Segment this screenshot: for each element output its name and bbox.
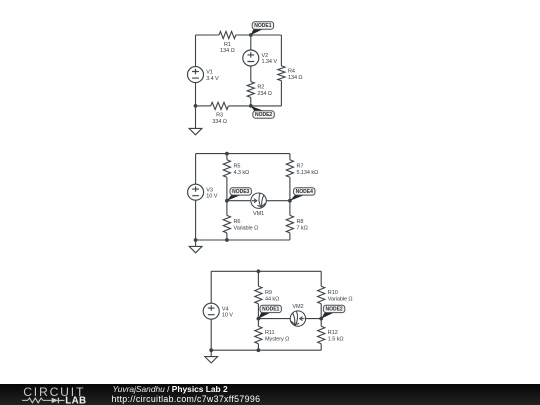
resistor R11 Mystery ohm bbox=[255, 326, 262, 343]
footer bar bbox=[0, 384, 540, 405]
svg-text:7 kΩ: 7 kΩ bbox=[297, 226, 308, 232]
ground (circuit 2) bbox=[189, 246, 202, 252]
svg-text:NODE1: NODE1 bbox=[254, 23, 271, 29]
svg-text:Variable Ω: Variable Ω bbox=[328, 297, 353, 303]
svg-text:R10: R10 bbox=[328, 290, 338, 296]
wire: circuit3 middle horizontal (voltmeter row) bbox=[258, 318, 321, 320]
svg-text:NODE3: NODE3 bbox=[232, 189, 249, 195]
junction dots circuit1 bbox=[194, 33, 253, 108]
resistor R2 234 ohm bbox=[247, 82, 254, 98]
wire: circuit2 top rail bbox=[196, 153, 290, 155]
svg-text:NODE1: NODE1 bbox=[262, 307, 279, 313]
svg-text:R2: R2 bbox=[257, 85, 264, 91]
svg-text:V3: V3 bbox=[206, 187, 213, 193]
resistor R5 4.3 kohm bbox=[223, 160, 230, 178]
wire: circuit1 ground lead bbox=[195, 106, 197, 128]
svg-text:4.3 kΩ: 4.3 kΩ bbox=[234, 170, 250, 176]
wire: circuit3 top rail bbox=[211, 270, 321, 272]
wire: circuit2 left branch bbox=[195, 154, 197, 240]
svg-text:NODE2: NODE2 bbox=[325, 307, 342, 313]
wire: circuit1 top rail bbox=[196, 34, 282, 36]
svg-text:R6: R6 bbox=[234, 219, 241, 225]
resistor R3 334 ohm bbox=[211, 102, 229, 109]
svg-text:10 V: 10 V bbox=[206, 193, 217, 199]
svg-text:234 Ω: 234 Ω bbox=[257, 91, 271, 97]
resistor R9 44 kohm bbox=[255, 286, 262, 304]
wire: circuit2 bottom rail + ground lead bbox=[196, 240, 290, 246]
svg-text:R4: R4 bbox=[288, 68, 295, 74]
svg-text:R5: R5 bbox=[234, 164, 241, 170]
node label NODE2 bbox=[321, 305, 345, 318]
voltmeter VM2 bbox=[290, 311, 305, 326]
junction dots circuit2 bbox=[194, 152, 292, 242]
svg-text:V4: V4 bbox=[222, 306, 229, 312]
wire: circuit3 middle branch (R9/R11) bbox=[257, 271, 259, 350]
resistor R10 Variable ohm bbox=[318, 286, 325, 304]
svg-text:R8: R8 bbox=[297, 219, 304, 225]
wire: circuit1 right branch (R4) bbox=[228, 35, 281, 106]
node label NODE4 bbox=[290, 188, 315, 201]
svg-text:10 V: 10 V bbox=[222, 312, 233, 318]
svg-text:R7: R7 bbox=[297, 164, 304, 170]
wire: circuit3 bottom rail + ground lead bbox=[211, 350, 321, 356]
wire: circuit1 middle branch (V2/R2) bbox=[250, 35, 252, 106]
svg-text:1.34 V: 1.34 V bbox=[262, 59, 278, 65]
resistor R1 134 ohm bbox=[219, 31, 236, 38]
svg-text:R12: R12 bbox=[328, 330, 338, 336]
svg-text:NODE4: NODE4 bbox=[296, 189, 313, 195]
wire: circuit1 bottom rail bbox=[196, 105, 211, 107]
wire: circuit1 left branch bbox=[195, 35, 197, 106]
svg-text:134 Ω: 134 Ω bbox=[288, 75, 302, 81]
node label NODE1 bbox=[258, 305, 281, 318]
junction dots circuit3 bbox=[209, 269, 323, 352]
node label NODE1 bbox=[251, 22, 274, 35]
footer title text bbox=[113, 385, 228, 393]
footer url text bbox=[112, 394, 261, 404]
resistor R8 7 kohm bbox=[286, 215, 293, 233]
voltage source V4 10 V bbox=[203, 303, 219, 319]
CircuitLab logo bbox=[0, 384, 100, 405]
svg-text:R1: R1 bbox=[224, 42, 231, 48]
svg-text:334 Ω: 334 Ω bbox=[212, 119, 226, 125]
ground (circuit 1) bbox=[189, 128, 202, 134]
svg-text:44 kΩ: 44 kΩ bbox=[265, 297, 279, 303]
svg-text:VM1: VM1 bbox=[253, 211, 264, 217]
svg-text:R11: R11 bbox=[265, 330, 274, 336]
svg-text:NODE2: NODE2 bbox=[255, 112, 272, 118]
wire: circuit2 middle horizontal (voltmeter row) bbox=[227, 200, 290, 202]
svg-text:V2: V2 bbox=[262, 53, 269, 59]
voltage source V2 1.34 V bbox=[243, 50, 259, 66]
voltage source V3 10 V bbox=[188, 184, 204, 200]
wire: circuit2 middle branch (R5/R6) bbox=[226, 154, 228, 240]
svg-text:Variable Ω: Variable Ω bbox=[234, 226, 259, 232]
svg-text:R9: R9 bbox=[265, 290, 272, 296]
node label NODE2 bbox=[251, 106, 274, 118]
node label NODE3 bbox=[227, 188, 252, 201]
resistor R4 134 ohm bbox=[278, 66, 285, 81]
voltmeter VM1 bbox=[251, 193, 266, 208]
svg-text:LAB: LAB bbox=[65, 395, 86, 405]
svg-text:3.4 V: 3.4 V bbox=[206, 76, 219, 82]
wire: circuit2 right branch (R7/R8) bbox=[289, 154, 291, 240]
svg-text:134 Ω: 134 Ω bbox=[220, 48, 234, 54]
resistor R6 Variable ohm bbox=[223, 215, 230, 233]
ground (circuit 3) bbox=[205, 357, 218, 363]
svg-text:V1: V1 bbox=[206, 70, 213, 76]
svg-text:R3: R3 bbox=[216, 113, 223, 119]
wire: circuit3 left branch bbox=[210, 271, 212, 350]
voltage source V1 3.4 V bbox=[188, 67, 204, 83]
svg-text:5.134 kΩ: 5.134 kΩ bbox=[297, 170, 319, 176]
svg-text:Mystery Ω: Mystery Ω bbox=[265, 337, 289, 343]
svg-text:VM2: VM2 bbox=[292, 304, 303, 310]
wire: circuit3 right branch (R10/R12) bbox=[320, 271, 322, 350]
resistor R7 5.134 kohm bbox=[286, 160, 293, 178]
resistor R12 1.5 kohm bbox=[318, 326, 325, 343]
svg-text:1.5 kΩ: 1.5 kΩ bbox=[328, 337, 344, 343]
